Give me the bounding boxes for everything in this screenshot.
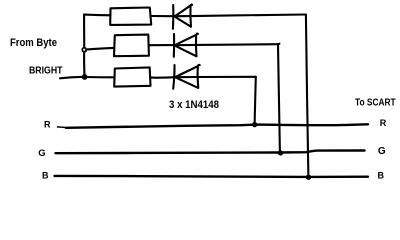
svg-text:R: R [380,118,387,128]
svg-text:G: G [38,148,45,159]
svg-text:3 x 1N4148: 3 x 1N4148 [169,99,219,111]
svg-text:To SCART: To SCART [355,98,396,109]
svg-text:BRIGHT: BRIGHT [29,65,63,77]
svg-text:B: B [42,171,49,181]
svg-text:B: B [378,170,385,180]
svg-text:R: R [44,120,51,130]
svg-text:G: G [378,146,386,157]
svg-text:From Byte: From Byte [10,37,57,49]
